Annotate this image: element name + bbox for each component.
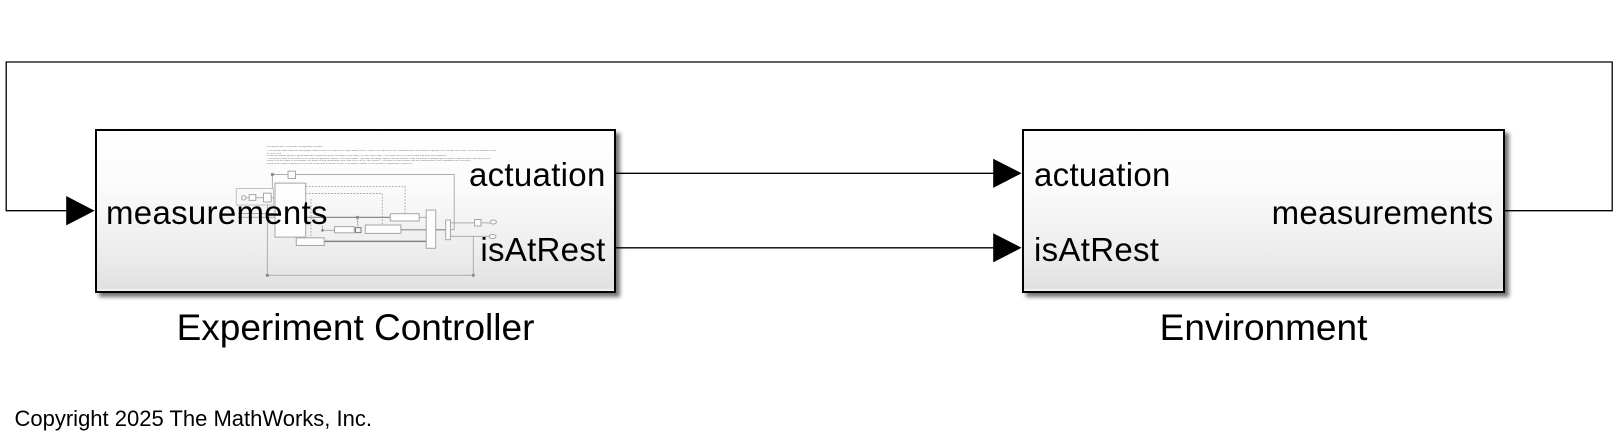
wire L to C (darker) (324, 240, 426, 242)
wire D to oval2 (450, 235, 489, 237)
preview outport oval 2 (489, 235, 496, 239)
preview block E (475, 220, 481, 227)
preview block cluster 1 (249, 195, 256, 201)
junction dot bottom left (266, 274, 269, 277)
port arrow into Experiment Controller measurements (66, 196, 94, 225)
wire junction branch down (357, 217, 359, 226)
port arrow into Environment isAtRest (993, 233, 1021, 262)
preview block L (296, 238, 324, 246)
preview block B (365, 225, 401, 233)
dashed wire 1 (306, 187, 405, 214)
preview chart block (275, 183, 306, 237)
block name Environment (1022, 309, 1505, 346)
preview outport oval 1 (490, 220, 496, 224)
junction dot mid (356, 216, 359, 219)
port label measurements (Experiment Controller input) (106, 196, 328, 229)
annotation copyright (15, 408, 372, 430)
wire D to E (450, 222, 490, 224)
preview tiny link block (356, 228, 362, 233)
port label actuation (Environment input) (1034, 158, 1171, 191)
junction dot SB feed (321, 229, 324, 232)
port label actuation (Experiment Controller output) (469, 158, 606, 191)
wire preview right drop (472, 236, 474, 275)
cluster grouping box (236, 189, 273, 206)
wire A to C (419, 216, 426, 218)
annotation description text block (preview) (265, 0, 267, 1)
wire isAtRest: Experiment Controller/2 -> Environment/2 (616, 247, 994, 249)
wire SB feed (323, 226, 335, 231)
port label isAtRest (Experiment Controller output) (480, 233, 605, 266)
dashed wire 3 (310, 199, 312, 238)
content preview mini diagram (238, 175, 490, 276)
wire measurements feedback: Environment/1 -> Experiment Controller/1 (6, 62, 1612, 211)
wire C to D (dark) (436, 229, 446, 231)
wire chart to A (dark) (306, 216, 391, 218)
wire actuation: Experiment Controller/1 -> Environment/1 (616, 172, 994, 174)
preview block small top square (288, 171, 296, 178)
preview tall block C (426, 210, 436, 248)
block name Experiment Controller (95, 309, 616, 346)
preview inport circle (242, 196, 246, 200)
wire cluster links (246, 197, 275, 199)
preview block SB (335, 227, 355, 233)
wire SB to link (354, 229, 355, 231)
wire preview top feedback (272, 174, 288, 176)
preview block A (390, 214, 419, 221)
junction dot top left (271, 173, 274, 176)
wire preview left drop (271, 175, 273, 190)
wire chart inputs (238, 214, 275, 218)
port arrow into Environment actuation (993, 159, 1021, 188)
wire B to C (dark) (401, 229, 426, 231)
subsystem Environment block body (1022, 129, 1505, 293)
preview block cluster 2 (264, 193, 272, 202)
wire preview bottom (267, 274, 473, 276)
dashed wire 2 (306, 194, 383, 225)
junction dot bottom right (472, 274, 475, 277)
preview tall block D (446, 220, 451, 240)
subsystem Experiment Controller block body (95, 129, 616, 293)
port label isAtRest (Environment input) (1034, 233, 1159, 266)
port label measurements (Environment output) (1272, 196, 1494, 229)
